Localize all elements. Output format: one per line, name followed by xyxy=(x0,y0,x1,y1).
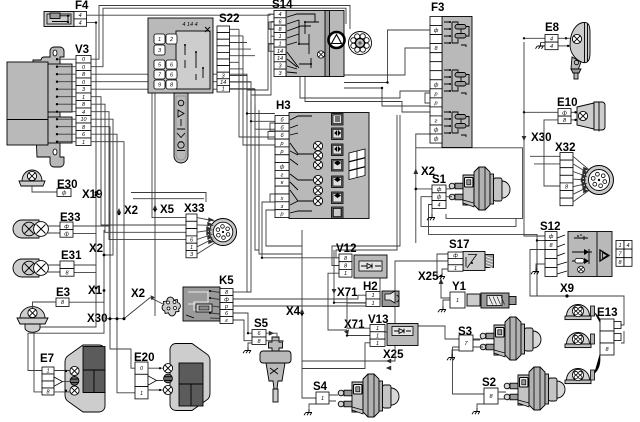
wire S1 enclosure loop xyxy=(416,148,523,219)
svg-text:ф: ф xyxy=(434,137,439,143)
wire K5 row1 xyxy=(233,291,247,293)
svg-text:X2: X2 xyxy=(124,205,138,217)
S5 ground xyxy=(243,343,252,353)
svg-text:1: 1 xyxy=(456,298,459,304)
svg-text:1: 1 xyxy=(222,87,225,93)
Y1 terminal box xyxy=(450,292,465,308)
E3 terminal box xyxy=(56,298,69,307)
wire bundle to K5 xyxy=(247,95,251,292)
fuse block F3 xyxy=(431,2,472,148)
wire E10 lamp a xyxy=(571,111,578,113)
svg-text:1: 1 xyxy=(190,245,193,251)
wire S22 via X5 xyxy=(154,93,156,316)
svg-text:10: 10 xyxy=(80,117,87,123)
V3 pin wires xyxy=(56,58,76,143)
light switch S14 xyxy=(272,0,345,77)
svg-text:X5: X5 xyxy=(160,204,175,216)
wire V13 to S3 xyxy=(418,326,459,339)
svg-text:х: х xyxy=(280,196,284,202)
svg-text:S17: S17 xyxy=(449,239,469,251)
wire xyxy=(230,68,244,70)
clearance lamp E13b xyxy=(565,333,595,348)
svg-text:ф: ф xyxy=(62,191,67,197)
wire E10 lamp b xyxy=(571,119,578,121)
E33 terminal strip xyxy=(60,222,73,237)
Y1 ground xyxy=(438,300,450,312)
tail lamp E20 unit xyxy=(134,344,210,411)
wire X19 to E7 xyxy=(34,195,96,392)
wire V3 to X2 node xyxy=(91,119,113,255)
wire V3 to H3 row3 xyxy=(91,89,275,129)
diode block V12 xyxy=(336,243,387,278)
svg-text:14: 14 xyxy=(277,56,283,62)
svg-text:1: 1 xyxy=(376,341,379,347)
wire S22 to H3 xyxy=(239,29,275,137)
svg-text:X25: X25 xyxy=(418,271,439,283)
wire E13 tab a xyxy=(621,324,624,326)
svg-text:1: 1 xyxy=(376,333,379,339)
wire S14 to F3 row11 xyxy=(305,77,430,113)
wire F3 to S1 via X2 xyxy=(416,134,433,189)
wire H3 to X4 riser xyxy=(266,210,302,246)
S2 actuator xyxy=(504,367,565,410)
switch S17 xyxy=(449,239,494,271)
wire to V13 row2 xyxy=(347,335,370,337)
strip brackets xyxy=(268,22,430,202)
bundle junction dots xyxy=(95,21,539,336)
wire F3 to V12 a xyxy=(336,115,397,258)
wire xyxy=(268,43,274,45)
svg-text:ф: ф xyxy=(434,28,439,34)
svg-text:з: з xyxy=(280,204,284,210)
tail lamp E7 unit xyxy=(40,345,105,412)
round connector X33 xyxy=(184,203,237,246)
wire V3 to X30 node xyxy=(91,142,124,319)
wire S22 to H3 b xyxy=(243,36,275,145)
wire E8 lamp b xyxy=(558,45,573,47)
svg-text:1: 1 xyxy=(376,326,379,332)
wire K5 to H2 xyxy=(233,295,366,299)
relay K5 xyxy=(183,275,234,321)
svg-text:ф: ф xyxy=(434,128,439,134)
wire S17 to Y1 xyxy=(441,281,452,298)
V12 terminal strip xyxy=(339,254,352,277)
S22 terminal strip xyxy=(217,26,230,93)
wire X32 row2 feed xyxy=(534,163,560,165)
S4 actuator xyxy=(338,374,399,417)
cab lamp E30 unit xyxy=(19,170,77,192)
switch S1 label xyxy=(432,174,447,186)
headlamp E8 xyxy=(545,22,590,79)
svg-text:X30: X30 xyxy=(531,132,551,144)
S2 ground xyxy=(472,404,484,414)
svg-text:E7: E7 xyxy=(40,353,54,365)
wire S22 to X33 row1 xyxy=(152,93,186,218)
column switch S22 xyxy=(148,13,239,93)
svg-text:E8: E8 xyxy=(545,22,560,34)
E8 ground xyxy=(536,43,546,49)
svg-text:р: р xyxy=(433,100,437,106)
S1 wires to actuator xyxy=(446,189,452,197)
wire X71 riser to H2 row2 xyxy=(334,250,366,303)
X33 pin wires xyxy=(197,217,215,254)
control unit V3 xyxy=(7,44,89,167)
svg-text:4: 4 xyxy=(79,21,82,27)
svg-text:ф: ф xyxy=(434,82,439,88)
svg-text:1: 1 xyxy=(618,243,621,249)
svg-text:ф: ф xyxy=(437,187,442,193)
wire E33 row1 xyxy=(73,212,110,226)
svg-text:2: 2 xyxy=(169,37,173,43)
S3 terminal box xyxy=(459,335,473,351)
svg-text:ф: ф xyxy=(280,165,285,171)
svg-text:X33: X33 xyxy=(184,203,204,215)
S12 right grid xyxy=(616,241,632,267)
S1 terminal strip xyxy=(432,185,446,209)
wire X1 chain to E7 row1 xyxy=(28,230,104,371)
svg-text:E3: E3 xyxy=(56,287,70,299)
X32 terminal strip xyxy=(560,153,573,206)
E13 connector block xyxy=(600,319,621,355)
svg-text:4: 4 xyxy=(550,44,553,50)
svg-text:X19: X19 xyxy=(82,189,102,201)
marker lamp E33 unit xyxy=(13,212,80,238)
svg-text:1: 1 xyxy=(278,34,281,40)
svg-text:V3: V3 xyxy=(75,44,89,56)
svg-text:р: р xyxy=(433,91,437,97)
wire S3 to S2 xyxy=(453,347,485,394)
E7 lamp wires xyxy=(54,370,70,392)
wire xyxy=(271,35,274,37)
wire S14 feed 2 xyxy=(251,22,271,96)
marker lamp E31 unit xyxy=(13,250,82,277)
svg-text:1: 1 xyxy=(82,95,85,101)
wire Y1 stub xyxy=(467,295,469,297)
S17 ground xyxy=(437,269,448,279)
S4 wires xyxy=(329,395,338,401)
wire E3 to X1 xyxy=(69,291,104,303)
svg-text:S5: S5 xyxy=(254,318,269,330)
F3 terminal strip xyxy=(430,17,442,144)
svg-text:4: 4 xyxy=(82,110,85,116)
svg-text:S22: S22 xyxy=(219,13,239,25)
S3 ground xyxy=(447,350,459,360)
wire xyxy=(230,75,248,77)
S5 wires right xyxy=(266,331,283,342)
wire loop under stalk xyxy=(131,193,206,203)
svg-text:4: 4 xyxy=(437,203,440,209)
wire xyxy=(259,110,302,254)
ignition rotor connector xyxy=(349,32,372,55)
svg-text:X2: X2 xyxy=(131,288,145,300)
hazard switch S12 xyxy=(540,221,612,277)
wire H3 to V12 row1 xyxy=(262,202,339,258)
wire S14 to F3 row4 xyxy=(344,48,430,75)
E20 selector arrow xyxy=(148,376,157,385)
S2 wires xyxy=(498,392,506,399)
svg-text:E10: E10 xyxy=(557,97,577,109)
S2 terminal box xyxy=(484,388,498,404)
wire E8 to X30 riser xyxy=(524,37,545,39)
svg-text:ф: ф xyxy=(64,224,69,230)
wire xyxy=(268,13,274,15)
wire xyxy=(268,28,274,30)
svg-text:ф: ф xyxy=(437,195,442,201)
wire S1 to X9 xyxy=(429,205,538,297)
S3 actuator xyxy=(480,317,541,360)
wire xyxy=(230,42,248,44)
X33 terminal strip xyxy=(186,214,197,258)
svg-text:9: 9 xyxy=(158,83,161,89)
svg-text:X9: X9 xyxy=(560,283,574,295)
wire V3 top bus 2 xyxy=(91,8,346,66)
wire point labels xyxy=(82,132,574,361)
svg-text:F3: F3 xyxy=(431,2,444,14)
svg-text:ф: ф xyxy=(64,231,69,237)
wire V12 to X71 low xyxy=(328,273,347,330)
pressure valve S5 xyxy=(254,318,291,402)
S14 terminal strip xyxy=(274,11,286,77)
wire xyxy=(271,21,274,23)
svg-text:г: г xyxy=(281,172,284,178)
svg-text:K5: K5 xyxy=(219,275,234,287)
svg-text:4: 4 xyxy=(550,36,553,42)
svg-text:S14: S14 xyxy=(272,0,293,11)
connector icon X2 xyxy=(124,295,182,319)
wire E31 row1 xyxy=(74,264,96,266)
H3 terminal strip xyxy=(275,116,289,218)
svg-text:V12: V12 xyxy=(336,243,356,255)
svg-text:4: 4 xyxy=(626,243,629,249)
wire X30 bus xyxy=(105,318,124,320)
wire X30 riser to S12 xyxy=(524,42,545,236)
svg-text:4: 4 xyxy=(79,13,82,19)
wire xyxy=(230,48,252,50)
wire X71 to V13 row1 xyxy=(347,296,370,328)
E20 terminal strip xyxy=(135,362,148,399)
E7 terminal strip xyxy=(42,367,54,396)
K5 terminal strip xyxy=(220,289,233,325)
wire X9 to E13 xyxy=(537,296,624,325)
E13 label xyxy=(597,307,617,319)
wire S12 to X9 a xyxy=(537,241,545,297)
svg-text:г: г xyxy=(225,318,228,324)
S4 ground xyxy=(304,404,316,415)
S3 wires xyxy=(473,339,483,347)
wire E10 to X30 riser xyxy=(524,111,558,113)
wire E31 row2 xyxy=(74,272,96,274)
svg-text:H3: H3 xyxy=(276,100,291,112)
svg-text:1: 1 xyxy=(371,301,374,307)
svg-text:к: к xyxy=(281,180,284,186)
svg-text:E31: E31 xyxy=(61,250,82,262)
svg-text:S4: S4 xyxy=(313,381,328,393)
X32 pin wires xyxy=(573,156,589,202)
svg-text:Y1: Y1 xyxy=(452,281,467,293)
clearance lamp E13a xyxy=(565,305,595,320)
svg-text:1: 1 xyxy=(344,271,347,277)
instrument cluster H3 xyxy=(276,100,369,219)
E20 lamp wires xyxy=(148,367,164,391)
wire E13 tab b xyxy=(621,331,624,343)
svg-text:1: 1 xyxy=(158,37,161,43)
svg-text:S1: S1 xyxy=(432,174,447,186)
wire K5 to V12 xyxy=(233,278,380,306)
wire S12 to X9 b xyxy=(530,250,545,297)
junction markers xyxy=(95,37,577,370)
plafond lamp E3 unit xyxy=(17,287,70,332)
E31 terminal strip xyxy=(60,261,74,276)
connector strip V3 xyxy=(76,56,91,146)
svg-text:F4: F4 xyxy=(75,0,89,12)
svg-text:ф: ф xyxy=(549,234,554,240)
E13 lamp wires xyxy=(594,312,600,374)
svg-text:X4: X4 xyxy=(286,306,301,318)
wire xyxy=(230,28,240,30)
wire xyxy=(230,61,240,63)
wire X2 down xyxy=(415,189,417,243)
wire S14 to F3 row2 xyxy=(344,30,430,83)
wire S17 row1 xyxy=(437,254,448,276)
E10 terminal strip xyxy=(558,109,571,124)
wire S14 to F3 row10 xyxy=(344,88,430,106)
wire X25 bus to S17 xyxy=(302,261,448,361)
S17 terminal strip xyxy=(448,252,463,272)
diode block V13 xyxy=(368,314,418,346)
wire V3 to E20 row3 xyxy=(91,134,135,393)
svg-text:4 14 4: 4 14 4 xyxy=(182,22,197,28)
wire xyxy=(230,35,244,37)
wire K5 to S5 row1 xyxy=(233,313,252,333)
svg-text:г: г xyxy=(435,119,438,125)
V13 terminal strip xyxy=(370,325,385,347)
svg-text:р: р xyxy=(279,212,283,218)
wire X25 bus to V13 row3 xyxy=(302,343,370,369)
svg-text:1: 1 xyxy=(454,266,457,272)
wire V3 top bus 1 xyxy=(91,6,350,60)
wire V13 stub xyxy=(385,331,387,333)
svg-text:X71: X71 xyxy=(337,287,358,299)
switch S2 label xyxy=(482,377,496,389)
S22 stalk xyxy=(174,93,188,163)
wire X32 row1 feed xyxy=(530,155,560,157)
svg-text:р: р xyxy=(279,149,283,155)
wire F4 to S14 xyxy=(87,14,274,15)
E30 terminal box xyxy=(57,189,71,197)
S1 ground xyxy=(427,209,435,221)
clearance lamp E13c xyxy=(565,369,595,384)
wire xyxy=(230,55,256,57)
horn H2 xyxy=(363,281,399,307)
fuse F4 terminals xyxy=(74,12,87,27)
S12 terminal strip xyxy=(545,232,557,277)
svg-text:1: 1 xyxy=(321,396,324,402)
wire E8 lamp a xyxy=(558,37,571,39)
wire E8 ground stub xyxy=(541,45,546,47)
svg-text:X25: X25 xyxy=(383,349,404,361)
svg-text:р: р xyxy=(279,141,283,147)
wire xyxy=(473,339,480,341)
fog lamp E10 xyxy=(557,97,605,132)
switch S3 label xyxy=(458,326,472,338)
E7 selector arrow xyxy=(54,377,63,386)
svg-text:14: 14 xyxy=(277,49,283,55)
wire S14 to F3 row8 xyxy=(300,77,430,99)
svg-text:1: 1 xyxy=(278,42,281,48)
E8 terminal strip xyxy=(545,35,558,50)
wire xyxy=(91,97,186,225)
svg-text:1: 1 xyxy=(371,293,374,299)
S1 actuator xyxy=(449,167,510,210)
S12 ground xyxy=(531,264,545,274)
wire xyxy=(230,81,252,83)
wire E33 row2 xyxy=(73,233,96,235)
svg-text:ф: ф xyxy=(562,110,567,116)
H2 terminal strip xyxy=(366,292,380,307)
wire F4 to X19 xyxy=(87,23,96,193)
wire E10 to X32 xyxy=(544,120,560,186)
S5 terminal strip xyxy=(252,330,266,345)
wire V3 to E20 row1 xyxy=(91,127,135,369)
solenoid valve Y1 xyxy=(452,281,516,308)
fuse F4 xyxy=(44,0,89,27)
wire xyxy=(91,112,186,240)
svg-text:1: 1 xyxy=(82,140,85,146)
wire xyxy=(230,88,256,90)
wire V3 to H3 row2 xyxy=(91,82,275,122)
round connector X32 xyxy=(555,142,614,195)
wire xyxy=(91,104,186,232)
svg-text:4: 4 xyxy=(278,12,281,18)
switch S4 label xyxy=(313,381,328,393)
svg-text:E13: E13 xyxy=(597,307,617,319)
wire K5 to S5 row2 xyxy=(233,320,252,341)
wire F3 to V12 b xyxy=(332,115,400,266)
wire S14 feed 1 xyxy=(247,14,268,90)
S4 terminal box xyxy=(316,392,329,404)
svg-text:S2: S2 xyxy=(482,377,496,389)
wire bundle mid xyxy=(255,105,259,250)
wire S1 row2 loop xyxy=(421,197,516,227)
wire V3 to H3 row1 xyxy=(91,74,275,113)
wire X4 riser to S4 xyxy=(302,230,316,398)
svg-text:1: 1 xyxy=(140,391,143,397)
